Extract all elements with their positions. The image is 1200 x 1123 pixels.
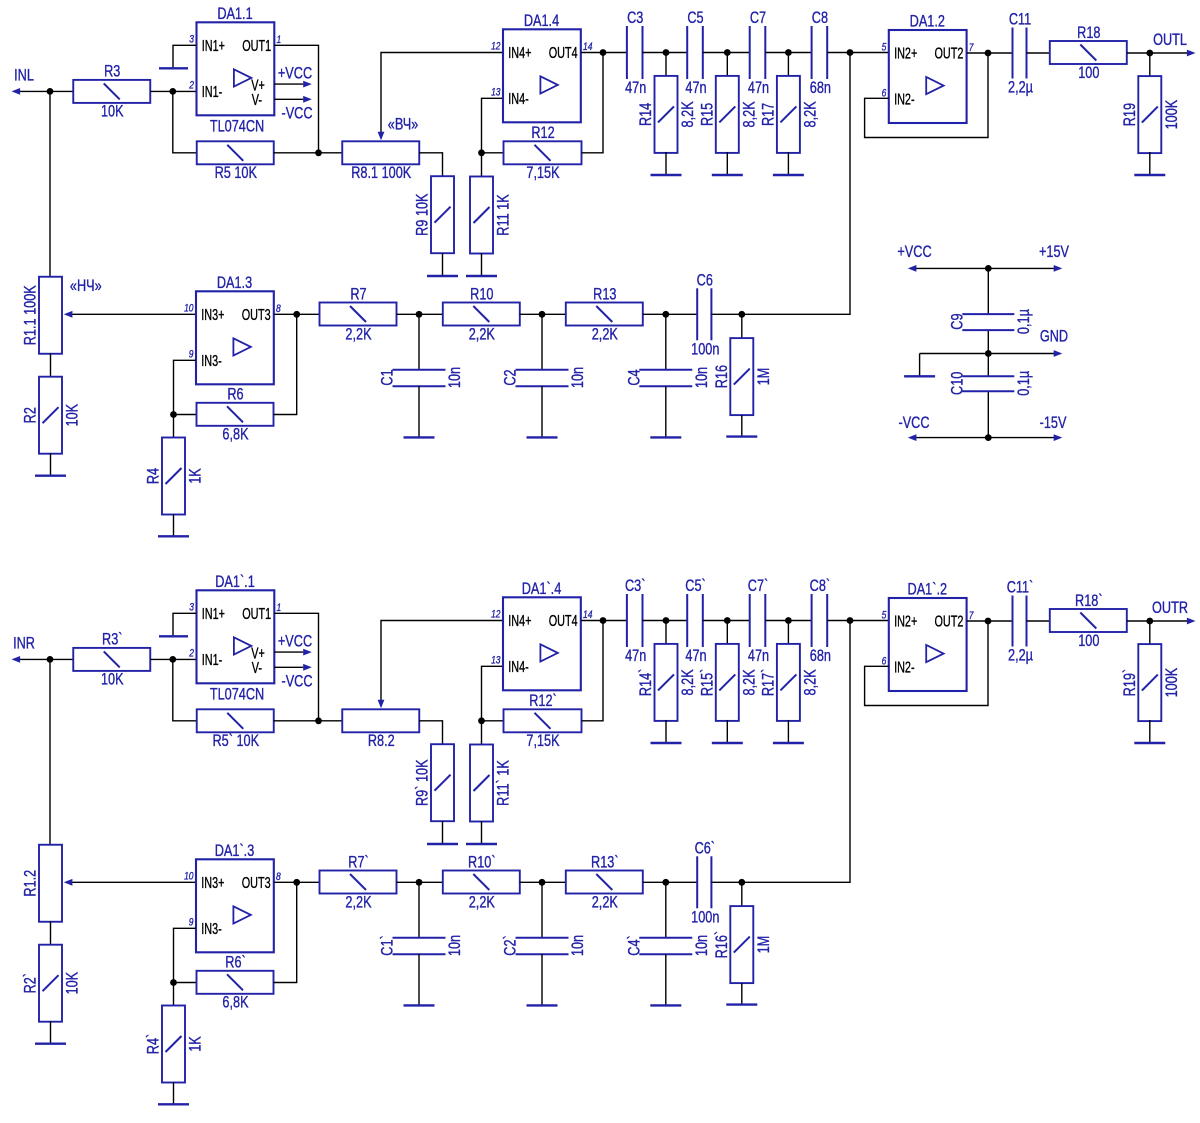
svg-text:C1: C1 xyxy=(379,369,397,385)
svg-text:1K: 1K xyxy=(187,468,205,484)
capacitor C2 xyxy=(502,367,587,388)
svg-text:R7: R7 xyxy=(350,286,366,304)
svg-text:5: 5 xyxy=(882,41,887,53)
wire DA1.2 feedback xyxy=(865,621,988,706)
svg-text:IN1+: IN1+ xyxy=(202,605,225,622)
wire GND rail with arrow xyxy=(920,353,1054,355)
svg-text:R5 10K: R5 10K xyxy=(215,165,258,183)
svg-text:R18`: R18` xyxy=(1075,592,1103,610)
wire R13 to C6 xyxy=(643,881,698,883)
svg-text:R12`: R12` xyxy=(529,693,557,711)
wire junction to R12` xyxy=(482,720,505,722)
wire IN1- feedback left xyxy=(173,91,197,152)
wire C5-C7 xyxy=(703,620,750,622)
resistor R6` xyxy=(197,954,274,1012)
wire R10-R13 xyxy=(520,313,566,315)
resistor R3` xyxy=(73,631,150,689)
svg-text:R3`: R3` xyxy=(102,631,122,649)
resistor R11` xyxy=(470,745,513,822)
wire R8 to R9` xyxy=(419,721,443,744)
svg-text:10n: 10n xyxy=(693,367,711,388)
svg-text:DA1.4: DA1.4 xyxy=(524,12,559,30)
potentiometer R1.2 xyxy=(22,845,62,922)
node GND junction xyxy=(985,350,992,357)
svg-text:1M: 1M xyxy=(755,936,773,954)
svg-text:8,2K: 8,2K xyxy=(741,669,759,695)
ground under R14 xyxy=(651,152,682,175)
op-amp DA1.2 xyxy=(882,13,974,123)
svg-text:10K: 10K xyxy=(64,404,82,427)
wire DA1.2 feedback xyxy=(865,53,988,138)
svg-text:2,2K: 2,2K xyxy=(592,326,618,344)
svg-text:3: 3 xyxy=(189,34,194,46)
resistor R15` xyxy=(699,644,759,721)
svg-text:47n: 47n xyxy=(685,648,706,666)
node feedback/R8 junction xyxy=(315,717,322,724)
wire C2 stub xyxy=(541,314,543,370)
wire R6` to OUT3 xyxy=(274,882,297,982)
wire C11 to R18 xyxy=(1027,52,1051,54)
svg-text:7,15K: 7,15K xyxy=(526,733,559,751)
svg-text:+15V: +15V xyxy=(1039,244,1069,262)
svg-text:R14: R14 xyxy=(638,103,656,126)
svg-text:C7: C7 xyxy=(750,10,766,28)
svg-text:DA1`.2: DA1`.2 xyxy=(908,581,948,599)
resistor R13` xyxy=(566,854,643,912)
wire IN4- down xyxy=(482,666,504,744)
svg-text:R9 10K: R9 10K xyxy=(414,193,432,236)
node IN1- junction xyxy=(169,88,176,95)
svg-text:IN1-: IN1- xyxy=(202,651,222,668)
capacitor C1` xyxy=(379,935,464,956)
op-amp DA1.4 xyxy=(491,12,593,122)
ground under R2` xyxy=(35,1021,66,1043)
svg-text:68n: 68n xyxy=(810,80,831,98)
resistor R16 xyxy=(713,338,773,415)
ground IN1+ bar xyxy=(159,635,188,637)
node OUT4/R12 junction xyxy=(600,617,607,624)
wire C1 stub xyxy=(418,314,420,370)
svg-text:IN2+: IN2+ xyxy=(894,613,917,630)
resistor R18 xyxy=(1050,24,1127,82)
svg-text:100n: 100n xyxy=(691,341,719,359)
svg-text:IN2+: IN2+ xyxy=(894,45,917,62)
resistor R7` xyxy=(320,854,397,912)
node IN3-/R4/R6 junction xyxy=(170,411,177,418)
wire R12` to OUT4 xyxy=(582,621,604,721)
wire R13 to C6 xyxy=(643,313,698,315)
wire INR with arrow xyxy=(18,658,74,660)
svg-text:«ВЧ»: «ВЧ» xyxy=(388,116,418,134)
wire C11 to R18` xyxy=(1027,620,1051,622)
svg-text:+VCC: +VCC xyxy=(278,633,313,651)
op-amp DA1`.3 xyxy=(184,842,281,952)
svg-text:C7`: C7` xyxy=(748,578,768,596)
node IN4-/R11/R12 junction xyxy=(478,149,485,156)
svg-text:10K: 10K xyxy=(64,972,82,995)
svg-text:R3: R3 xyxy=(104,63,120,81)
wire R6 to OUT3 xyxy=(274,314,297,414)
svg-text:IN4+: IN4+ xyxy=(508,44,531,61)
wire OUT2 to C11 xyxy=(967,52,1013,54)
node R10/C2 xyxy=(539,879,546,886)
svg-text:13: 13 xyxy=(491,655,501,667)
svg-text:C4: C4 xyxy=(626,369,644,385)
ground under C1` xyxy=(404,954,435,1005)
wire R1 wiper arrow from IN3+ xyxy=(70,881,196,883)
wire C4 stub xyxy=(665,882,667,938)
svg-text:TL074CN: TL074CN xyxy=(210,118,264,136)
capacitor C11 xyxy=(1008,11,1033,97)
svg-text:R8.2: R8.2 xyxy=(368,733,395,751)
svg-text:DA1`.3: DA1`.3 xyxy=(215,842,255,860)
node IN4-/R11/R12 junction xyxy=(478,717,485,724)
capacitor C11` xyxy=(1007,579,1034,665)
ground under C4` xyxy=(650,954,681,1005)
node +VCC junction xyxy=(985,265,992,272)
resistor R5` xyxy=(197,709,274,750)
svg-text:C2`: C2` xyxy=(502,935,520,955)
node feedback/R8 junction xyxy=(315,149,322,156)
svg-text:47n: 47n xyxy=(685,80,706,98)
wire R3` to IN1- xyxy=(150,658,197,660)
resistor R2` xyxy=(22,945,82,1022)
node R13/C4 xyxy=(662,879,669,886)
node OUT4/R12 junction xyxy=(600,49,607,56)
svg-text:10: 10 xyxy=(184,303,194,315)
svg-text:47n: 47n xyxy=(625,80,646,98)
svg-text:47n: 47n xyxy=(748,648,769,666)
ground under R4` xyxy=(158,1082,189,1104)
node IN1- junction xyxy=(169,656,176,663)
svg-text:IN1-: IN1- xyxy=(202,83,222,100)
wire R16 stub xyxy=(741,882,743,906)
svg-text:R12: R12 xyxy=(531,125,554,143)
node C8/feedback riser xyxy=(847,617,854,624)
node R10/C2 xyxy=(539,311,546,318)
node OUT3 junction xyxy=(293,879,300,886)
svg-text:V-: V- xyxy=(252,91,262,108)
ground under R19 xyxy=(1134,152,1165,175)
resistor R7 xyxy=(320,286,397,344)
wire R18 to OUTL with arrow xyxy=(1127,52,1188,54)
capacitor C6` xyxy=(691,840,719,927)
svg-text:DA1.2: DA1.2 xyxy=(910,13,945,31)
ground under R16 xyxy=(726,415,757,436)
wire IN4- down xyxy=(482,98,504,176)
capacitor C10 xyxy=(949,370,1033,395)
svg-text:2,2µ: 2,2µ xyxy=(1008,647,1033,665)
svg-text:OUT3: OUT3 xyxy=(242,874,271,891)
wire input down to R1 xyxy=(49,659,51,845)
svg-text:R6`: R6` xyxy=(225,954,245,972)
resistor R17` xyxy=(760,644,820,721)
svg-text:R4`: R4` xyxy=(145,1034,163,1054)
node C7/R17 xyxy=(785,49,792,56)
svg-text:OUTL: OUTL xyxy=(1153,32,1187,50)
svg-text:8,2K: 8,2K xyxy=(680,669,698,695)
svg-text:DA1.1: DA1.1 xyxy=(217,5,252,23)
svg-text:«НЧ»: «НЧ» xyxy=(70,278,102,296)
capacitor C8 xyxy=(810,10,831,98)
capacitor C3 xyxy=(625,10,646,98)
svg-text:10n: 10n xyxy=(447,935,465,956)
svg-text:-VCC: -VCC xyxy=(281,105,312,123)
svg-text:R4: R4 xyxy=(145,468,163,484)
wire C5-C7 xyxy=(703,52,750,54)
svg-text:C9: C9 xyxy=(949,313,967,329)
wire R7-R10 xyxy=(397,881,444,883)
node OUT3 junction xyxy=(293,311,300,318)
svg-text:C11: C11 xyxy=(1009,11,1031,29)
svg-text:12: 12 xyxy=(491,609,501,621)
capacitor C8` xyxy=(810,578,831,666)
svg-text:-VCC: -VCC xyxy=(898,415,929,433)
node input junction xyxy=(47,88,54,95)
resistor R18` xyxy=(1050,592,1127,650)
wire IN1+ ground stub xyxy=(173,613,197,636)
resistor R15 xyxy=(699,76,759,153)
wire junction to R6` xyxy=(174,982,197,984)
svg-text:C3`: C3` xyxy=(625,578,645,596)
svg-text:R19: R19 xyxy=(1121,103,1139,126)
svg-text:2,2K: 2,2K xyxy=(345,894,371,912)
svg-text:R2: R2 xyxy=(22,407,40,423)
wire R1 wiper arrow from IN3+ xyxy=(70,313,196,315)
wire R14 stub xyxy=(665,621,667,645)
node OUT2 junction xyxy=(985,50,992,57)
capacitor C5` xyxy=(685,578,706,666)
svg-text:7,15K: 7,15K xyxy=(526,165,559,183)
ground under R11` xyxy=(466,822,497,845)
svg-text:INL: INL xyxy=(14,67,34,85)
node IN3-/R4/R6 junction xyxy=(170,979,177,986)
svg-text:C3: C3 xyxy=(627,10,643,28)
svg-text:C5: C5 xyxy=(687,10,703,28)
svg-text:-15V: -15V xyxy=(1040,415,1067,433)
svg-text:R11 1K: R11 1K xyxy=(495,194,513,236)
svg-text:8,2K: 8,2K xyxy=(741,101,759,127)
wire R5` to R8 node xyxy=(274,720,343,722)
resistor R13 xyxy=(566,286,643,344)
svg-text:R2`: R2` xyxy=(22,973,40,993)
wire R7-R10 xyxy=(397,313,444,315)
svg-text:2,2K: 2,2K xyxy=(592,894,618,912)
wire R15 stub xyxy=(726,621,728,645)
ground under C4 xyxy=(650,386,681,437)
svg-text:OUT4: OUT4 xyxy=(549,612,578,629)
svg-text:2: 2 xyxy=(188,648,194,660)
resistor R14` xyxy=(638,644,698,721)
svg-text:+VCC: +VCC xyxy=(897,244,932,262)
svg-text:C2: C2 xyxy=(502,369,520,385)
svg-text:10n: 10n xyxy=(447,367,465,388)
svg-text:100K: 100K xyxy=(1163,668,1181,698)
svg-text:R10: R10 xyxy=(470,286,493,304)
resistor R9` xyxy=(414,744,454,821)
wire R16 stub xyxy=(741,314,743,338)
wire C3-C5 xyxy=(643,620,688,622)
svg-text:R7`: R7` xyxy=(348,854,368,872)
wire OUT4 to C3 xyxy=(581,52,627,54)
wire IN1- feedback left xyxy=(173,659,197,720)
node C6/R16 xyxy=(738,879,745,886)
wire R17 stub xyxy=(787,53,789,77)
node input junction xyxy=(47,656,54,663)
wire C2 stub xyxy=(541,882,543,938)
svg-text:OUTR: OUTR xyxy=(1152,600,1188,618)
svg-text:DA1`.4: DA1`.4 xyxy=(522,580,562,598)
svg-text:8,2K: 8,2K xyxy=(802,101,820,127)
wire IN1+ ground stub xyxy=(173,45,197,68)
capacitor C2` xyxy=(502,935,587,956)
capacitor C4 xyxy=(626,367,711,388)
svg-text:R6: R6 xyxy=(227,386,243,404)
op-amp DA1`.4 xyxy=(491,580,593,690)
wire C3-C5 xyxy=(643,52,688,54)
svg-text:R15`: R15` xyxy=(699,669,717,697)
svg-text:IN4+: IN4+ xyxy=(508,612,531,629)
potentiometer R8.1 xyxy=(342,141,419,182)
svg-text:R19`: R19` xyxy=(1121,669,1139,697)
resistor R6 xyxy=(197,386,274,444)
resistor R10` xyxy=(443,854,520,912)
ground under R9` xyxy=(427,821,458,844)
svg-text:8,2K: 8,2K xyxy=(802,669,820,695)
wire +VCC rail with arrows xyxy=(916,267,1054,269)
wire R19 stub xyxy=(1149,621,1151,645)
node C7/R17 xyxy=(785,617,792,624)
capacitor C4` xyxy=(626,935,711,956)
svg-text:IN3-: IN3- xyxy=(201,352,221,369)
svg-text:IN3-: IN3- xyxy=(201,920,221,937)
wire INL with arrow xyxy=(18,90,74,92)
capacitor C3` xyxy=(625,578,646,666)
wire OUT3 to R7 xyxy=(274,881,320,883)
wire OUT3 to R7 xyxy=(274,313,320,315)
svg-text:10n: 10n xyxy=(570,935,588,956)
wire C8 to IN2+ xyxy=(827,52,889,54)
svg-text:IN3+: IN3+ xyxy=(201,306,224,323)
svg-text:100n: 100n xyxy=(691,909,719,927)
wire R5 to R8 node xyxy=(274,152,343,154)
svg-text:R17: R17 xyxy=(760,103,778,126)
svg-text:R15: R15 xyxy=(699,103,717,126)
wire OUT2 to C11 xyxy=(967,620,1013,622)
svg-text:C6`: C6` xyxy=(695,840,715,858)
svg-text:10K: 10K xyxy=(101,671,124,689)
svg-text:2: 2 xyxy=(188,80,194,92)
svg-text:9: 9 xyxy=(189,349,194,361)
svg-text:3: 3 xyxy=(189,602,194,614)
svg-text:R11` 1K: R11` 1K xyxy=(495,760,513,806)
svg-text:+VCC: +VCC xyxy=(278,65,313,83)
svg-text:100: 100 xyxy=(1078,632,1099,650)
wire C1 stub xyxy=(418,882,420,938)
svg-text:2,2K: 2,2K xyxy=(469,894,495,912)
svg-text:10K: 10K xyxy=(101,103,124,121)
svg-text:OUT2: OUT2 xyxy=(934,45,963,62)
resistor R3 xyxy=(73,63,150,121)
svg-text:47n: 47n xyxy=(625,648,646,666)
svg-text:R10`: R10` xyxy=(468,854,496,872)
wire R14 stub xyxy=(665,53,667,77)
node C5/R15 xyxy=(724,49,731,56)
ground under C1 xyxy=(404,386,435,437)
svg-text:IN4-: IN4- xyxy=(508,90,528,107)
svg-text:R18: R18 xyxy=(1077,24,1100,42)
resistor R11 xyxy=(470,177,513,254)
wire OUT1 feedback right xyxy=(274,45,318,153)
resistor R12` xyxy=(504,693,582,751)
svg-text:1M: 1M xyxy=(755,368,773,386)
wire R1-R2 xyxy=(50,354,52,378)
wire C7-C8 xyxy=(765,620,811,622)
svg-text:C8`: C8` xyxy=(810,578,830,596)
svg-text:IN4-: IN4- xyxy=(508,658,528,675)
svg-text:14: 14 xyxy=(583,41,593,53)
svg-text:12: 12 xyxy=(491,41,501,53)
ground under R15` xyxy=(712,720,743,743)
ground IN1+ bar xyxy=(159,67,188,69)
ground under R17` xyxy=(773,720,804,743)
svg-text:R14`: R14` xyxy=(638,669,656,697)
svg-text:1K: 1K xyxy=(187,1036,205,1052)
svg-text:DA1`.1: DA1`.1 xyxy=(215,573,255,591)
svg-text:6,8K: 6,8K xyxy=(222,426,248,444)
svg-text:2,2µ: 2,2µ xyxy=(1008,79,1033,97)
svg-text:0,1µ: 0,1µ xyxy=(1015,309,1033,334)
ground under C2 xyxy=(527,386,558,437)
svg-text:-VCC: -VCC xyxy=(281,673,312,691)
op-amp DA1.3 xyxy=(184,274,281,384)
svg-text:V-: V- xyxy=(252,659,262,676)
wire R19 stub xyxy=(1149,53,1151,77)
resistor R19 xyxy=(1121,76,1181,153)
wire IN4+ to R8 wiper with arrow xyxy=(381,621,503,704)
node -VCC junction xyxy=(985,434,992,441)
svg-text:IN1+: IN1+ xyxy=(202,37,225,54)
wire C8 to IN2+ xyxy=(827,620,889,622)
svg-text:10: 10 xyxy=(184,871,194,883)
op-amp DA1`.2 xyxy=(882,581,974,691)
svg-text:C4`: C4` xyxy=(626,935,644,955)
svg-text:R17`: R17` xyxy=(760,669,778,697)
svg-text:R1.1 100K: R1.1 100K xyxy=(22,285,40,345)
svg-text:R1.2: R1.2 xyxy=(22,870,40,897)
resistor R2 xyxy=(22,377,82,454)
node R13/C4 xyxy=(662,311,669,318)
svg-text:R9` 10K: R9` 10K xyxy=(414,759,432,806)
wire C6 to riser xyxy=(711,621,850,883)
resistor R4 xyxy=(145,438,205,515)
svg-text:9: 9 xyxy=(189,917,194,929)
svg-text:IN2-: IN2- xyxy=(894,91,914,108)
resistor R16` xyxy=(713,906,773,983)
svg-text:DA1.3: DA1.3 xyxy=(217,274,252,292)
wire IN3- feedback xyxy=(174,360,197,437)
capacitor C5 xyxy=(685,10,706,98)
ground under R2 xyxy=(35,453,66,475)
wire OUT4 to C3 xyxy=(581,620,627,622)
wire R15 stub xyxy=(726,53,728,77)
resistor R14 xyxy=(638,76,698,153)
resistor R5 xyxy=(197,141,274,182)
ground under C2` xyxy=(527,954,558,1005)
wire input down to R1 xyxy=(49,91,51,277)
ground GND drop xyxy=(904,354,935,377)
svg-text:C6: C6 xyxy=(697,272,713,290)
